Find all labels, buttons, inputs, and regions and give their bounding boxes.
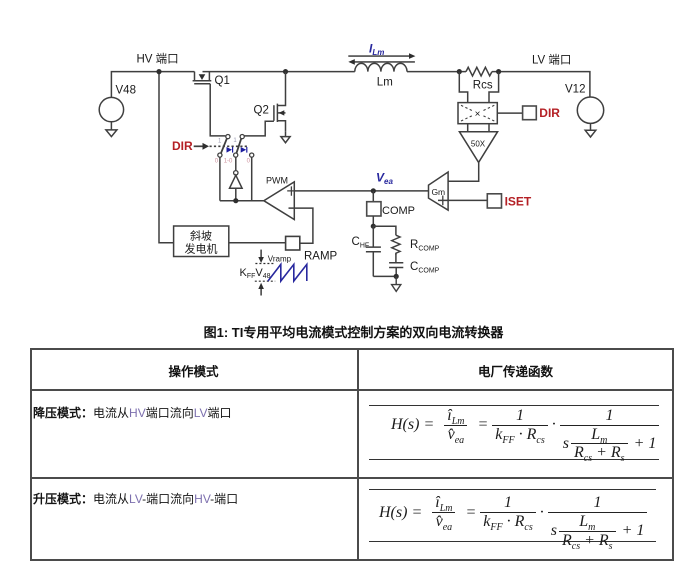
svg-text:Q2: Q2 xyxy=(254,105,269,117)
ground below V48 xyxy=(106,122,117,137)
wire: inductor to Rcs node xyxy=(407,71,466,73)
svg-text:DIR: DIR xyxy=(172,139,193,153)
svg-text:CHF: CHF xyxy=(352,236,370,249)
op-amp Gm error amplifier xyxy=(429,172,449,210)
capacitor CHF xyxy=(366,247,381,252)
wire: top junction to RCOMP branch xyxy=(373,226,396,235)
node: Q2 drain junction xyxy=(283,69,288,74)
switch S1 common terminal xyxy=(226,135,230,139)
switch direction arrow blue 2 xyxy=(241,147,247,153)
svg-text:0: 0 xyxy=(215,158,219,164)
svg-text:1: 1 xyxy=(218,139,222,145)
svg-text:RCOMP: RCOMP xyxy=(410,239,440,252)
annotation: arrow up xyxy=(260,289,262,296)
ramp generator box 斜坡发电机 xyxy=(174,226,229,257)
RAMP pin box xyxy=(286,236,300,250)
svg-text:0: 0 xyxy=(247,158,251,164)
node: HV junction xyxy=(156,69,161,74)
wire: 50X output to Gm input xyxy=(442,162,479,181)
svg-text:×: × xyxy=(475,109,481,120)
wire: left throw down to PWM output line xyxy=(219,157,221,201)
wire: Rcs right node to multiplier xyxy=(489,72,499,103)
svg-text:Vea: Vea xyxy=(376,171,393,187)
COMP pin box xyxy=(367,202,381,216)
wire: CHF branch lower xyxy=(372,252,374,277)
source V12 xyxy=(577,97,603,123)
ISET pin box xyxy=(487,194,501,208)
svg-text:DIR: DIR xyxy=(539,106,560,120)
multiplier (polarity) box xyxy=(458,103,497,124)
wire: right throw down to PWM output line xyxy=(251,157,253,201)
switch S1 blade xyxy=(221,138,227,153)
wire: multiplier to 50X amp xyxy=(468,124,489,132)
inverter (gate driver) xyxy=(230,175,243,188)
svg-text:KFFV48: KFFV48 xyxy=(240,267,271,280)
wire: Rcs to LV port and V12 xyxy=(492,72,590,97)
svg-text:Gm: Gm xyxy=(431,187,445,197)
svg-text:Vramp: Vramp xyxy=(268,255,292,264)
svg-text:ISET: ISET xyxy=(505,194,532,208)
DIR pin box xyxy=(523,106,537,120)
annotation: arrow right over Lm xyxy=(348,55,409,57)
svg-text:ILm: ILm xyxy=(369,42,384,58)
svg-text:Lm: Lm xyxy=(377,77,393,89)
resistor RCOMP xyxy=(392,235,400,255)
node: Vea junction xyxy=(371,188,376,193)
wire: COMP box to compensation network xyxy=(372,216,374,226)
svg-text:PWM: PWM xyxy=(266,176,288,186)
wire: Vea to COMP box xyxy=(372,191,374,202)
pin: Gm plus input xyxy=(442,196,444,206)
switch throw terminal left xyxy=(218,153,222,157)
svg-text:LV 端口: LV 端口 xyxy=(532,54,571,67)
switch S2 common terminal xyxy=(240,135,244,139)
wire: CCOMP to bottom junction xyxy=(373,268,396,277)
waveform: blue sawtooth xyxy=(268,264,307,281)
node: Rcs left xyxy=(457,69,462,74)
wire: Rcs left node to multiplier xyxy=(459,72,467,103)
wire: CHF branch upper xyxy=(372,226,374,247)
formula row 2 rules xyxy=(369,489,656,490)
transistor Q2 xyxy=(274,72,286,132)
transistor Q1 xyxy=(193,72,212,84)
formula row 1 xyxy=(391,398,659,453)
node: compensation bottom junction xyxy=(394,274,399,279)
switch throw terminal middle xyxy=(234,153,238,157)
node: compensation top junction xyxy=(371,224,376,229)
pin: PWM plus input tick xyxy=(287,186,294,195)
resistor Rcs xyxy=(466,67,492,76)
svg-text:1-0: 1-0 xyxy=(224,158,233,164)
ground below compensation xyxy=(392,276,401,291)
wire: left rail down to ramp generator xyxy=(159,72,174,243)
ground below V12 xyxy=(585,123,596,137)
svg-text:V12: V12 xyxy=(565,84,585,96)
svg-text:V48: V48 xyxy=(116,85,136,97)
wire: Q1 gate to switch 1 xyxy=(210,84,225,136)
wire: ramp generator to RAMP resistor box xyxy=(229,242,286,244)
wire: Gm input to ISET box xyxy=(438,199,487,201)
ground below Q2 xyxy=(281,131,290,143)
op-amp PWM comparator xyxy=(264,182,295,220)
formula row 1 rules xyxy=(369,405,659,406)
svg-text:Q1: Q1 xyxy=(215,75,230,87)
switch S2 blade xyxy=(236,138,241,153)
wire: HV rail Q1 to inductor xyxy=(203,71,355,73)
annotation: arrow left under xyxy=(354,61,415,63)
wire: Vea net (PWM + input to Gm output) xyxy=(294,190,428,192)
svg-text:Rcs: Rcs xyxy=(473,80,493,92)
svg-text:1: 1 xyxy=(233,138,237,144)
svg-text:斜坡: 斜坡 xyxy=(190,230,212,243)
op-amp 50X current sense amplifier xyxy=(459,132,497,163)
svg-text:COMP: COMP xyxy=(382,205,415,217)
annotation: Vramp arrow down xyxy=(260,250,262,258)
svg-text:CCOMP: CCOMP xyxy=(410,261,440,274)
wire: multiplier to DIR box xyxy=(497,112,522,114)
svg-text:HV 端口: HV 端口 xyxy=(137,53,179,66)
node: PWM output junction xyxy=(233,198,238,203)
wire: middle throw to inverter xyxy=(235,157,237,170)
source V48 xyxy=(99,97,123,121)
inverter bubble xyxy=(234,171,238,175)
formula row 2 xyxy=(379,485,647,540)
caption xyxy=(0,322,689,341)
annotation: dashed bottom level xyxy=(255,280,275,282)
wire: PWM ramp input to RAMP box xyxy=(289,208,313,243)
svg-text:发电机: 发电机 xyxy=(185,242,218,256)
switch direction arrow blue 1 xyxy=(227,147,233,153)
wire: HV rail from V48 to Q1 xyxy=(111,72,194,98)
wire: DIR arrow xyxy=(194,145,203,147)
capacitor CCOMP xyxy=(389,263,403,268)
node: Rcs right xyxy=(496,69,501,74)
svg-text:50X: 50X xyxy=(471,140,486,149)
wire: inverter to PWM output line xyxy=(235,188,237,200)
switch throw terminal right xyxy=(250,153,254,157)
svg-text:RAMP: RAMP xyxy=(304,251,338,263)
wire: DIR dashed control line xyxy=(210,145,248,147)
inductor Lm xyxy=(355,63,407,71)
wire: PWM output line xyxy=(220,200,264,202)
wire: Q2 gate to switch 2 xyxy=(245,121,274,136)
annotation: dashed top level xyxy=(255,263,274,265)
wire: RCOMP to CCOMP xyxy=(395,253,397,262)
